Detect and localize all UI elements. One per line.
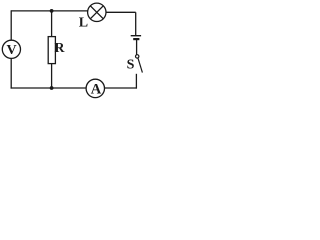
ammeter A (86, 79, 104, 97)
battery negative short plate (133, 38, 139, 40)
svg-text:S: S (127, 58, 135, 73)
wire right vertical upper (135, 12, 137, 35)
wire bottom-right horizontal (105, 87, 137, 89)
wire bottom-left horizontal (11, 87, 87, 89)
battery positive long plate (131, 35, 141, 37)
wire resistor branch lower (51, 64, 53, 88)
svg-text:V: V (6, 43, 16, 58)
voltmeter V (2, 40, 20, 58)
wire left vertical lower (10, 58, 12, 88)
wire top-right horizontal (106, 11, 136, 13)
node junction bottom (50, 86, 54, 90)
wire left vertical upper (10, 10, 12, 40)
wire top-left horizontal (11, 10, 88, 12)
resistor R (48, 37, 55, 64)
svg-text:R: R (54, 41, 65, 56)
svg-text:A: A (91, 81, 102, 97)
switch S (136, 55, 143, 73)
wire battery to switch (136, 40, 138, 55)
lamp L (88, 3, 106, 21)
svg-text:L: L (79, 15, 88, 30)
wire right vertical lower (135, 74, 137, 89)
node junction top (50, 9, 54, 13)
wire resistor branch upper (51, 11, 53, 37)
